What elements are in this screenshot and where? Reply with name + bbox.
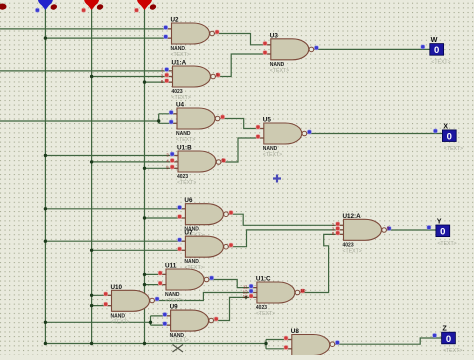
wire bus C to U1:B input 3 [145,167,179,169]
wire bus C vertical [144,8,146,344]
probe W input state marker [421,45,426,50]
junction bus A / U2.in2 [44,36,47,39]
svg-text:U11: U11 [165,263,177,270]
gate U1:C output bubble [295,290,300,295]
junction U4 input tie [157,119,160,122]
gate U10 input state markers [103,292,108,307]
wire U8 input 2 stub [266,348,292,350]
partial indicator dot at left edge [0,4,7,10]
wire net D to U2 input 1 [0,28,172,30]
svg-text:U12:A: U12:A [343,213,362,220]
gate U1:C input state markers [243,284,254,299]
wire bus B to U10 input 1 [92,294,112,296]
svg-text:<TEXT>: <TEXT> [444,146,463,152]
junction bus B / U10.in2 [90,304,93,307]
svg-text:<TEXT>: <TEXT> [343,248,362,254]
gate U8 body [292,335,330,356]
gate U4 pin stubs [169,114,224,124]
svg-text:U10: U10 [111,284,123,291]
gate U7 body [185,236,223,257]
gate U6 body [185,204,223,225]
probe Y input state marker [427,225,432,230]
gate U2 input state markers [163,25,168,39]
wire U11 output to U1:C input 1 [209,280,257,288]
svg-text:U1:A: U1:A [172,60,187,67]
gate U6 input state markers [177,205,182,219]
wire U1:B output to U5 input 2 [224,138,264,162]
svg-text:2: 2 [161,73,164,78]
logic input indicator B (cut off at top) [84,0,99,10]
svg-text:4: 4 [166,159,169,164]
svg-text:U1:C: U1:C [256,276,271,283]
wire bus C to U6 input 2 [145,217,186,219]
svg-text:<TEXT>: <TEXT> [170,337,189,343]
svg-text:13: 13 [243,294,249,299]
svg-text:0: 0 [440,227,445,238]
wire U3 output to probe W [314,48,430,50]
wire U9 input 1 stub [151,315,171,317]
wire U1:C output to U12:A input 3 [300,234,343,292]
svg-text:6: 6 [221,157,224,162]
gate U2 body [172,23,210,44]
junction bus B / U7.in2 [90,249,93,252]
gate U11 body [166,269,204,290]
svg-text:<TEXT>: <TEXT> [270,68,289,74]
logic input indicator C (cut off at top) [137,0,152,10]
sheet X marker near U9 [173,345,184,353]
indicator A side dot [50,3,58,10]
gate U1:C output state marker [300,288,306,293]
svg-text:<TEXT>: <TEXT> [176,137,195,143]
gate U3 input state markers [263,41,268,55]
gate U1:B input state markers [166,152,174,170]
gate U5 output bubble [302,131,307,136]
svg-text:<TEXT>: <TEXT> [111,319,130,325]
junction bus C / U1:B.in3 [143,167,146,170]
wire bus C to U1:A input 3 [145,81,173,83]
gate U12:A input state markers [332,222,340,237]
svg-text:U7: U7 [184,230,193,237]
svg-text:U6: U6 [184,197,193,204]
gate U1:C pin stubs [249,288,304,298]
gate U5 output state marker [307,130,312,135]
svg-text:Z: Z [442,324,447,333]
junction bus C / bottom net [143,342,146,345]
gate U9 output state marker [214,317,219,322]
junction bus B / U1:A.in2 [90,75,93,78]
wire bus A vertical [44,8,46,344]
wire bus C to U11 input 1 [145,273,167,275]
svg-text:0: 0 [446,334,451,345]
svg-text:<TEXT>: <TEXT> [263,152,282,158]
svg-text:<TEXT>: <TEXT> [177,180,196,186]
junction bus C / U6.in2 [143,216,146,219]
gate U12:A output state marker [387,225,392,230]
gate U8 pin stubs [284,340,339,349]
junction bus B / U10.in1 [90,294,93,297]
gate U12:A output bubble [382,228,387,233]
junction bus A / U1:B.in1 [44,154,47,157]
gate U10 pin stubs [104,295,159,305]
svg-text:1: 1 [161,68,164,73]
wire U9 input 2 stub [151,324,171,326]
probe X input state marker [433,129,438,134]
gate U12:A body [344,219,382,240]
gate U6 output bubble [224,212,229,217]
gate U6 output state marker [229,210,234,215]
gate U11 output state marker [209,276,214,281]
gate U7 pin stubs [177,241,232,250]
gate U11 input state markers [158,271,163,286]
svg-text:W: W [431,35,438,44]
svg-text:9: 9 [387,225,390,230]
svg-text:X: X [443,121,448,130]
svg-text:9: 9 [216,72,219,77]
junction bus B / bottom net [90,342,93,345]
wire bottom net to U8 inputs [45,343,266,345]
svg-text:U3: U3 [270,32,279,39]
indicator A state marker [35,8,40,13]
svg-text:U5: U5 [263,117,272,124]
wire U4 input tie bracket [158,114,160,124]
wire bus A to U7 input 1 [45,240,185,242]
gate U1:B output bubble [216,160,221,165]
wire U8 input tie bracket [265,340,267,349]
svg-text:<TEXT>: <TEXT> [172,95,191,101]
gate U1:A body [173,66,211,87]
gate U10 output bubble [150,298,155,303]
gate U11 output bubble [204,277,209,282]
wire U12:A output to probe Y [387,229,436,231]
gate U1:A pin stubs [165,71,220,82]
gate U8 output state marker [335,340,340,345]
gate U3 body [271,39,309,60]
wire U6 output to U12:A input 1 [229,214,344,225]
svg-text:8: 8 [332,231,335,236]
svg-text:<TEXT>: <TEXT> [256,311,275,317]
indicator B side dot [96,3,104,10]
svg-text:<TEXT>: <TEXT> [171,52,190,58]
svg-text:5: 5 [166,165,169,170]
svg-text:U2: U2 [171,17,180,24]
indicator B state marker [81,8,86,13]
junction U8 input tie [264,342,267,345]
wire U2 output to U3 input 1 [215,34,271,45]
wire U5 output to probe X [309,133,442,135]
gate U1:C body [257,282,295,303]
wire U8 input 1 stub [266,339,292,341]
gate U9 output bubble [209,318,214,323]
gate U4 input state markers [169,110,174,124]
svg-text:10: 10 [300,288,306,293]
gate U7 output state marker [229,243,234,248]
gate U7 output bubble [224,244,229,249]
wire U8 output to probe Z [335,338,441,344]
svg-text:<TEXT>: <TEXT> [443,348,462,354]
junction bus C / U11.in2 [143,283,146,286]
gate U3 output state marker [314,46,319,51]
gate U5 input state markers [256,125,261,139]
wire U4 input 2 stub [159,122,177,124]
logic probe X box [442,130,456,142]
logic probe W box [430,44,444,56]
gate U6 pin stubs [177,209,232,218]
gate U12:A pin stubs [336,225,391,234]
gate U4 body [177,108,215,129]
wire bus B vertical [91,8,93,344]
wire net D to U4 inputs [0,120,159,122]
gate U10 output state marker [155,297,160,302]
wire bus A to U2 input 2 [45,37,171,39]
svg-text:U4: U4 [176,102,185,109]
svg-text:0: 0 [434,45,439,56]
wire bus A to U1:B input 1 [45,155,178,157]
gate U4 output bubble [215,116,220,121]
gate U9 input state markers [163,312,168,326]
gate U9 pin stubs [163,316,218,325]
gate U1:B output state marker [221,157,226,162]
wire U10 output to U1:C input 2 [155,293,257,301]
gate U2 pin stubs [164,29,219,38]
logic probe Y box [436,225,450,237]
gate U1:B pin stubs [170,156,225,169]
gate U3 pin stubs [263,45,318,54]
wire U1:A output to U3 input 2 [219,54,271,77]
junction bus C / U11.in1 [143,273,146,276]
svg-text:U9: U9 [170,304,179,311]
gate U8 output bubble [330,342,335,347]
gate U9 body [171,310,209,331]
wire U7 output to U12:A input 2 [229,230,344,247]
junction bus B / U1:B.in2 [90,160,93,163]
gate U1:A input state markers [161,67,169,84]
wire U4 output to U5 input 1 [221,119,264,129]
gate U1:A output bubble [211,74,216,79]
svg-text:Y: Y [437,217,442,226]
logic input indicator A (cut off at top) [38,0,53,10]
junction bus C / U1:A.in3 [143,80,146,83]
wire bus B to U10 input 2 [92,305,112,307]
junction bus A / U6.in1 [44,207,47,210]
svg-text:<TEXT>: <TEXT> [431,60,450,66]
indicator C side dot [149,3,157,10]
gate U11 pin stubs [158,274,213,284]
wire bus A to U6 input 1 [45,208,185,210]
gate U10 body [112,290,150,311]
wire bus C to U11 input 2 [145,284,167,286]
svg-text:0: 0 [447,132,452,143]
gate U3 output bubble [309,47,314,52]
junction bus A / U7.in1 [44,240,47,243]
gate U2 output bubble [210,31,215,36]
origin cross marker (blue) [273,175,281,183]
gate U1:A output state marker [216,72,221,77]
wire net D to U1:A input 1 [0,70,173,72]
svg-text:3: 3 [166,152,169,157]
svg-text:8: 8 [161,79,164,84]
junction bus A / U9 feed [44,321,47,324]
probe Z input state marker [432,333,437,338]
gate U8 input state markers [284,336,289,350]
svg-text:<TEXT>: <TEXT> [437,241,456,247]
wire bus A to U9 inputs [45,321,150,323]
wire U4 input 1 stub [159,113,177,115]
gate U4 output state marker [220,115,225,120]
gate U5 body [264,123,302,144]
wire bus B to U1:A input 2 [92,76,173,78]
junction at U1:C input 3 [245,296,248,299]
wire U9 output to U1:C input 3 [214,297,257,320]
junction U9 input tie [149,321,152,324]
gate U7 input state markers [177,238,182,252]
gate U2 output state marker [215,30,220,35]
wire U9 input tie bracket [150,316,152,325]
gate U1:B body [178,151,216,172]
logic probe Z box [442,332,456,344]
wire bus B to U7 input 2 [92,249,186,251]
wire bus B to U1:B input 2 [92,161,178,163]
indicator C state marker [134,8,139,13]
svg-text:U1:B: U1:B [177,145,192,152]
gate U5 pin stubs [256,129,311,139]
svg-text:U8: U8 [291,328,300,335]
junction bus A / bottom net [44,342,47,345]
